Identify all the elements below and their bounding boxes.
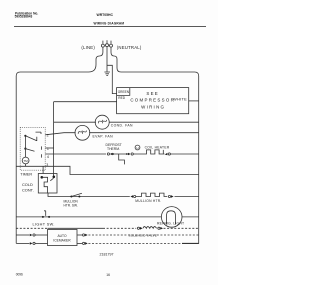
connector after mullion heater	[168, 195, 170, 197]
ground symbol	[104, 72, 110, 75]
green label compartment	[117, 88, 130, 96]
wire feed to cold control	[42, 166, 44, 173]
right bus bottom stub	[182, 242, 199, 244]
svg-text:(LINE): (LINE)	[81, 45, 95, 50]
refrigerator light bulb	[161, 207, 182, 228]
svg-text:COIL HEATER: COIL HEATER	[145, 145, 170, 149]
label DEFROST THERM.	[106, 143, 122, 151]
cold control bellows element	[42, 177, 54, 193]
icemaker feed row 2	[16, 242, 29, 244]
wire cond fan feed	[54, 121, 96, 123]
icemaker right pin 1	[77, 234, 82, 236]
svg-text:REFRIG. LIGHT: REFRIG. LIGHT	[157, 222, 184, 226]
svg-text:0096: 0096	[16, 273, 23, 277]
wire line side: plug to left bus	[16, 47, 103, 243]
svg-text:ICEMAKER: ICEMAKER	[53, 238, 71, 242]
wire solenoid to right bus dashed	[164, 227, 199, 229]
svg-text:LIGHT SW.: LIGHT SW.	[33, 223, 55, 227]
connector after thermostat	[128, 153, 131, 156]
label COLD CONT.	[22, 182, 34, 192]
wire mullion heater to right bus	[175, 196, 199, 198]
icemaker box	[48, 230, 78, 246]
solenoid valve coil	[143, 227, 157, 229]
wire timer terminal 1 to common	[45, 147, 53, 149]
connector after solenoid coil	[158, 227, 160, 229]
svg-text:(NEUTRAL): (NEUTRAL)	[117, 45, 142, 50]
circle H heater symbol	[135, 145, 140, 150]
svg-text:3: 3	[46, 163, 48, 167]
plug prong line	[101, 41, 104, 48]
svg-text:TIMER: TIMER	[20, 172, 32, 176]
cold control box	[38, 174, 57, 194]
wire light switch line	[16, 216, 161, 218]
svg-text:EVAP. FAN: EVAP. FAN	[93, 134, 114, 138]
defrost thermostat	[112, 153, 114, 155]
wire green branch to compressor	[107, 65, 117, 93]
mullion heater switch	[70, 196, 72, 198]
svg-text:4: 4	[47, 155, 49, 159]
coil heater resistor	[133, 150, 164, 154]
svg-text:MULLION HTR.: MULLION HTR.	[135, 199, 161, 203]
timer terminal labels	[46, 134, 49, 167]
solenoid feed line	[16, 227, 47, 229]
svg-text:COND. FAN: COND. FAN	[111, 123, 133, 127]
connector on defrost line	[107, 153, 109, 155]
wire ground prong stem	[106, 47, 108, 72]
wire white: compressor to right bus	[189, 100, 199, 102]
icemaker right pin 2	[77, 242, 82, 244]
wire red: common vertical to compressor	[54, 101, 117, 103]
svg-text:5995288643: 5995288643	[15, 15, 33, 19]
wire TM return and line feed	[16, 164, 199, 175]
compressor box	[117, 88, 189, 114]
svg-text:TM: TM	[24, 159, 29, 163]
header publication text	[15, 11, 39, 18]
svg-text:COMPRESSOR: COMPRESSOR	[130, 98, 175, 103]
connector before solenoid coil	[137, 227, 139, 229]
svg-text:RED: RED	[118, 96, 125, 100]
timer motor TM	[22, 157, 29, 164]
wire evap fan to right bus	[89, 132, 199, 134]
label MULLION HTR. SW.	[64, 199, 79, 207]
svg-text:2: 2	[47, 134, 49, 138]
svg-text:1: 1	[47, 147, 49, 151]
header rule	[14, 26, 206, 28]
wire timer terminal 4 defrost feed	[45, 153, 106, 155]
svg-text:WHITE: WHITE	[173, 97, 187, 102]
light switch	[42, 216, 44, 218]
wire cond fan to right bus	[109, 121, 198, 123]
wire evap fan feed from timer terminal 2	[45, 133, 75, 135]
plug prong ground	[106, 40, 109, 47]
svg-text:CONT.: CONT.	[22, 187, 34, 192]
evaporator fan motor	[75, 125, 90, 140]
connector before mullion heater	[130, 195, 133, 198]
svg-text:WRT05HC: WRT05HC	[97, 13, 114, 17]
wire light to right bus	[182, 216, 199, 218]
defrost timer dashed box	[20, 127, 45, 170]
connector after coil heater	[165, 153, 168, 156]
wire cold control to mullion switch line	[48, 193, 130, 197]
mullion heater resistor	[136, 193, 168, 196]
svg-text:WIRING DIAGRAM: WIRING DIAGRAM	[94, 21, 125, 25]
svg-text:WIRING: WIRING	[141, 105, 165, 110]
timer wiper contact dots	[24, 135, 26, 137]
svg-text:16: 16	[106, 273, 110, 277]
svg-text:SEE: SEE	[146, 91, 159, 96]
icemaker feed row 1	[16, 234, 29, 236]
condenser fan motor	[95, 115, 109, 129]
wire common vertical bus	[53, 102, 55, 177]
svg-text:H: H	[136, 146, 138, 150]
timer wiper arms and contacts	[25, 132, 41, 158]
plug prong neutral	[110, 41, 113, 48]
wire neutral side: plug to right bus	[111, 47, 199, 244]
timer wiper stem	[24, 136, 26, 157]
svg-text:HTR. SW.: HTR. SW.	[64, 204, 78, 208]
wire coil heater to right bus	[170, 153, 198, 155]
svg-text:GREEN: GREEN	[118, 90, 130, 94]
svg-text:THERM.: THERM.	[107, 147, 120, 151]
cold control terminal dots	[41, 176, 44, 179]
svg-text:2181797: 2181797	[100, 252, 114, 256]
